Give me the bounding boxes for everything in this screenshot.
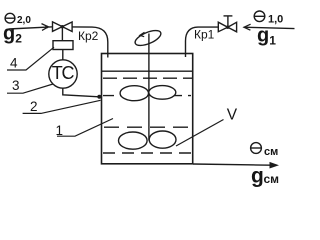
svg-text:2,0: 2,0: [17, 15, 31, 26]
actuator box 4: [53, 41, 73, 50]
dashed line mid: [104, 126, 191, 128]
svg-text:Кр2: Кр2: [78, 29, 99, 43]
leader 1: [57, 119, 113, 137]
stirrer shaft: [148, 34, 150, 141]
wire TC sensor to tank: [63, 88, 99, 97]
temperature symbol Θсм: [250, 143, 262, 154]
wire Кр2 to tank: [72, 27, 108, 58]
temperature symbol Θ1,0: [254, 11, 266, 22]
junction dot: [97, 95, 101, 99]
svg-text:TC: TC: [52, 63, 75, 83]
leader 3: [7, 84, 53, 93]
wire inlet g2: [9, 27, 54, 29]
svg-text:см: см: [264, 172, 280, 186]
dashed line at upper impeller: [103, 95, 191, 97]
svg-text:1,0: 1,0: [268, 14, 283, 26]
svg-text:3: 3: [12, 78, 20, 93]
dashed level line: [103, 77, 192, 79]
wire inlet g1: [244, 27, 295, 28]
svg-text:Кр1: Кр1: [194, 28, 215, 42]
liquid level line: [102, 70, 193, 72]
outflow arrowhead: [270, 162, 280, 169]
controller TC: [49, 60, 77, 88]
stirrer motor ellipse: [133, 27, 163, 48]
upper impeller blades: [120, 86, 176, 101]
wire Кр1 to tank: [186, 27, 219, 57]
valve Кр1: [218, 16, 236, 32]
wire actuator to TC: [62, 50, 64, 61]
svg-text:g: g: [251, 165, 264, 188]
outflow wire: [193, 164, 271, 165]
tank vessel: [102, 54, 193, 164]
svg-text:2: 2: [30, 99, 38, 114]
svg-text:4: 4: [10, 56, 18, 71]
valve Кр2: [53, 22, 73, 32]
svg-text:V: V: [227, 106, 238, 123]
arrowhead g2: [42, 24, 49, 31]
leader V: [176, 120, 224, 147]
dashed line at lower impeller: [103, 152, 191, 154]
temperature symbol Θ2,0: [5, 13, 16, 23]
leader 2: [23, 100, 101, 113]
wire valve stem: [61, 28, 63, 41]
svg-text:см: см: [264, 146, 278, 158]
leader 4: [7, 47, 54, 70]
arrowhead g1: [244, 24, 251, 30]
lower impeller blades: [119, 131, 177, 149]
